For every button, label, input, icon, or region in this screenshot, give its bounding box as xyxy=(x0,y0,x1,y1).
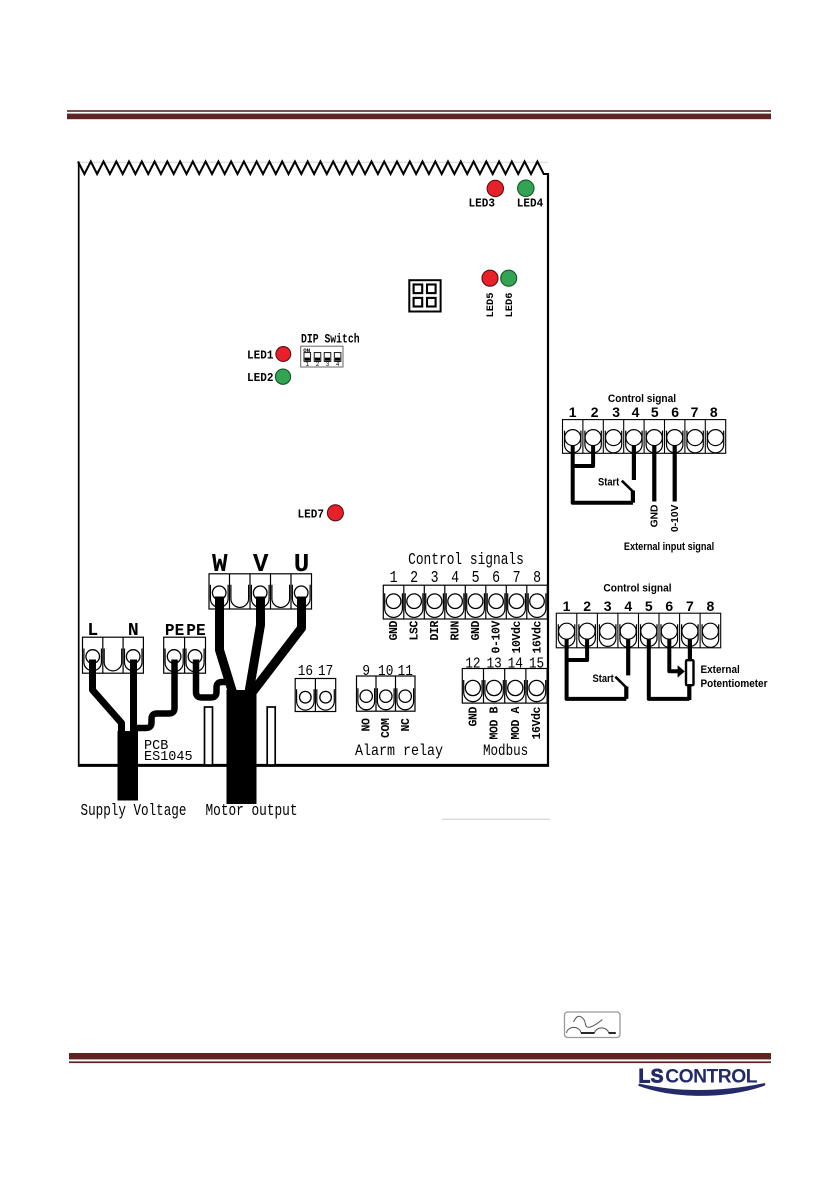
terminal block alarm relay 9 10 11 xyxy=(357,676,416,711)
terminal block 16 17 xyxy=(295,679,336,712)
LED6 green xyxy=(501,270,517,286)
svg-text:LED7: LED7 xyxy=(298,508,325,522)
svg-text:Modbus: Modbus xyxy=(483,743,528,761)
LED4 green xyxy=(518,180,534,196)
start switch blade (block A) xyxy=(622,481,633,492)
pin numbers 9 10 11 xyxy=(362,663,413,680)
terminal block control signal (block B) xyxy=(556,613,720,648)
label LED6 (vertical) xyxy=(504,293,516,318)
potentiometer body xyxy=(686,660,694,685)
terminal block modbus 12-15 xyxy=(462,669,547,704)
svg-text:Motor output: Motor output xyxy=(206,803,298,821)
wire from V to motor cable xyxy=(249,597,261,696)
bottom double rule thin line xyxy=(69,1061,771,1063)
svg-text:ES1045: ES1045 xyxy=(144,750,193,765)
svg-text:17: 17 xyxy=(318,663,333,680)
svg-text:Control signal: Control signal xyxy=(603,582,671,595)
svg-text:Control signals: Control signals xyxy=(408,552,524,570)
svg-text:0-10V: 0-10V xyxy=(670,504,681,532)
svg-text:GND: GND xyxy=(388,621,401,641)
svg-text:2: 2 xyxy=(591,404,599,420)
labels L N xyxy=(87,621,138,641)
svg-text:6: 6 xyxy=(671,404,679,420)
wire block A terminal 6 0-10V xyxy=(673,445,677,502)
wire pot bottom xyxy=(687,686,691,700)
motor cable sheath xyxy=(227,690,257,804)
svg-text:Potentiometer: Potentiometer xyxy=(701,677,768,690)
top double rule thin line xyxy=(67,110,771,112)
pot wiper arrowhead xyxy=(678,665,685,677)
svg-text:10Vdc: 10Vdc xyxy=(511,621,524,654)
supply cable sheath xyxy=(118,731,139,801)
start switch tail (block A) xyxy=(631,491,635,503)
signal labels GND LSC DIR RUN GND 0-10V 10Vdc 16Vdc xyxy=(388,621,545,654)
svg-text:8: 8 xyxy=(707,598,715,614)
svg-text:1: 1 xyxy=(306,361,310,368)
svg-text:3: 3 xyxy=(612,404,620,420)
faint scan line xyxy=(442,819,550,821)
svg-text:7: 7 xyxy=(686,598,694,614)
wire block B terminal 1 to bottom rail xyxy=(567,639,627,699)
terminal block PE PE xyxy=(164,637,206,673)
terminal block L N (supply) xyxy=(83,637,144,673)
svg-text:DIP Switch: DIP Switch xyxy=(301,332,360,347)
svg-text:4: 4 xyxy=(336,361,340,368)
svg-text:2: 2 xyxy=(583,598,591,614)
svg-text:0-10V: 0-10V xyxy=(491,621,504,654)
labels NO COM NC xyxy=(361,718,413,738)
wire block A terminal 2 jumper xyxy=(572,445,594,466)
svg-text:5: 5 xyxy=(645,598,653,614)
svg-text:8: 8 xyxy=(710,404,718,420)
svg-text:RUN: RUN xyxy=(450,621,463,641)
svg-text:LED1: LED1 xyxy=(247,349,274,363)
DIP switch body xyxy=(301,346,343,368)
svg-text:External: External xyxy=(701,663,740,676)
svg-text:16: 16 xyxy=(298,663,313,680)
svg-text:LSC: LSC xyxy=(409,621,422,641)
PCB outline: right edge xyxy=(547,173,549,767)
start switch tail (block B) xyxy=(624,687,628,699)
svg-text:4: 4 xyxy=(632,404,640,420)
wire from PE1 to supply cable xyxy=(137,660,175,729)
terminal block W V U (motor) xyxy=(209,574,312,609)
LED1 red xyxy=(276,347,291,362)
svg-text:Supply Voltage: Supply Voltage xyxy=(81,803,187,821)
svg-text:GND: GND xyxy=(467,707,480,727)
svg-text:COM: COM xyxy=(380,718,393,738)
labels W V U xyxy=(212,549,309,579)
svg-text:5: 5 xyxy=(651,404,659,420)
svg-text:CONTROL: CONTROL xyxy=(665,1067,758,1088)
wire block B terminal 5 to pot bottom xyxy=(649,639,690,699)
LED2 green xyxy=(275,369,290,384)
svg-text:16Vdc: 16Vdc xyxy=(532,621,545,654)
start switch blade (block B) xyxy=(615,677,626,688)
labels PE PE xyxy=(165,621,206,640)
top double rule thick band xyxy=(67,114,771,120)
wire block A terminal 1 to bottom rail xyxy=(573,445,633,503)
svg-text:1: 1 xyxy=(569,404,577,420)
PCB outline: zigzag top edge xyxy=(78,162,549,175)
faint scan line above zigzag xyxy=(78,162,548,163)
wire from PE2 to motor cable xyxy=(196,660,232,698)
svg-text:1: 1 xyxy=(563,598,571,614)
wire block A terminal 5 GND xyxy=(652,445,656,502)
svg-text:7: 7 xyxy=(691,404,699,420)
PCB outline: left edge xyxy=(78,162,80,767)
svg-text:6: 6 xyxy=(665,598,673,614)
wire block B terminal 4 to switch xyxy=(626,639,630,675)
wire block A terminal 4 to switch xyxy=(632,445,636,480)
LED5 red xyxy=(482,270,498,286)
svg-text:NC: NC xyxy=(400,718,413,732)
svg-text:3: 3 xyxy=(326,361,330,368)
labels GND MOD B MOD A 16Vdc xyxy=(467,707,544,740)
LS Control logo swoosh xyxy=(638,1083,765,1096)
svg-text:DIR: DIR xyxy=(429,621,442,641)
label LED5 (vertical) xyxy=(485,293,497,318)
svg-text:Alarm relay: Alarm relay xyxy=(355,743,443,760)
pin numbers 1-8 (pcb control signals) xyxy=(390,568,541,588)
pin numbers 16 17 xyxy=(298,663,333,680)
svg-text:MOD B: MOD B xyxy=(489,707,502,740)
svg-text:LED4: LED4 xyxy=(517,197,544,211)
wire block B terminal 6 to pot wiper xyxy=(669,639,678,671)
svg-text:GND: GND xyxy=(649,505,660,528)
wire from U to motor cable xyxy=(253,597,302,693)
PCB outline: bottom edge xyxy=(78,764,549,767)
wire block B terminal 7 to pot top xyxy=(688,639,692,660)
svg-text:LED3: LED3 xyxy=(469,197,496,211)
svg-text:GND: GND xyxy=(470,621,483,641)
label GND (block A) xyxy=(649,505,660,528)
pin numbers 1-8 (block A) xyxy=(569,404,718,420)
pin numbers 12 13 14 15 xyxy=(465,655,544,672)
strain relief slot left xyxy=(205,707,213,765)
label 0-10V (block A) xyxy=(670,504,681,532)
svg-text:2: 2 xyxy=(316,361,320,368)
svg-text:16Vdc: 16Vdc xyxy=(531,707,544,740)
terminal block control signal (block A) xyxy=(563,420,726,454)
terminal block control signals 1-8 xyxy=(383,585,547,619)
LED7 red xyxy=(327,505,343,521)
bottom double rule thick band xyxy=(69,1053,771,1059)
LED3 red xyxy=(487,180,503,196)
svg-text:NO: NO xyxy=(361,718,374,732)
connector icon 2x2 xyxy=(409,280,440,311)
svg-text:LED5: LED5 xyxy=(485,293,497,318)
strain relief slot right xyxy=(267,707,275,765)
svg-text:Start: Start xyxy=(593,673,615,685)
wire from N to supply cable xyxy=(130,660,137,735)
svg-text:4: 4 xyxy=(624,598,632,614)
svg-text:3: 3 xyxy=(604,598,612,614)
svg-text:LED6: LED6 xyxy=(504,293,516,318)
svg-text:MOD A: MOD A xyxy=(510,707,523,740)
pin numbers 1-8 (block B) xyxy=(563,598,715,614)
svg-text:LED2: LED2 xyxy=(247,372,274,386)
wave icon box xyxy=(565,1012,621,1038)
wire from L to supply cable xyxy=(93,660,122,735)
wire from W to motor cable xyxy=(220,597,235,698)
svg-text:External input signal: External input signal xyxy=(624,541,714,553)
svg-text:Start: Start xyxy=(598,477,620,489)
wire block B terminal 2 jumper xyxy=(566,639,588,660)
